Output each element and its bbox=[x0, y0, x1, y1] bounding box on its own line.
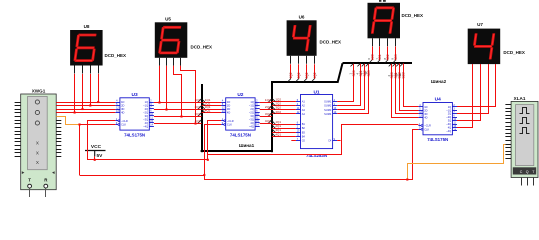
svg-text:4D: 4D bbox=[227, 111, 230, 115]
svg-text:2Q2: 2Q2 bbox=[265, 105, 271, 109]
wire U5 pin 1 tap to U3 1Q line bbox=[159, 66, 161, 102]
wire U1 output SUM3 up to bus Шина2 bbox=[337, 63, 364, 109]
wire U2 output 4Q to bus Шина1 right segment bbox=[260, 123, 272, 125]
svg-text:1Q1: 1Q1 bbox=[195, 98, 201, 102]
svg-text:A4: A4 bbox=[302, 112, 306, 116]
7-segment display U6 (hex display) showing 4 bbox=[287, 14, 317, 64]
svg-text:DCD_HEX: DCD_HEX bbox=[503, 50, 525, 55]
svg-text:~1Q: ~1Q bbox=[249, 104, 254, 108]
wire clock riser to U2 CLK bbox=[205, 125, 222, 176]
wire clock to U3 CLK bbox=[80, 124, 116, 126]
register IC U3 74LS175N bbox=[115, 92, 154, 137]
svg-text:C4: C4 bbox=[328, 139, 332, 143]
svg-text:~3Q: ~3Q bbox=[446, 122, 451, 126]
svg-text:2Q2: 2Q2 bbox=[297, 72, 301, 78]
wire clock bottom run right segment bbox=[205, 130, 419, 180]
wire clock bottom run left segment bbox=[80, 175, 205, 177]
svg-text:4Q2: 4Q2 bbox=[275, 110, 281, 114]
svg-text:2Q1: 2Q1 bbox=[195, 105, 201, 109]
svg-text:3Q: 3Q bbox=[250, 114, 253, 118]
svg-text:3Q: 3Q bbox=[448, 119, 451, 123]
svg-text:3Q2: 3Q2 bbox=[265, 112, 271, 116]
wire U2 output 3Q to bus Шина1 right segment bbox=[260, 116, 272, 118]
wire U5 pin 4 tap to U3 4Q line bbox=[181, 66, 196, 123]
wire U8 pin 3 tap to data line 2 bbox=[90, 74, 92, 106]
wire U5 pin 2 tap to U3 2Q line bbox=[166, 66, 168, 109]
svg-text:B1: B1 bbox=[302, 122, 306, 126]
svg-text:B4: B4 bbox=[302, 134, 306, 138]
svg-text:~CLR: ~CLR bbox=[424, 124, 431, 128]
svg-text:U2: U2 bbox=[237, 92, 243, 98]
wire VCC net middle run to U4 ~CLR bbox=[208, 125, 419, 155]
svg-text:~2Q: ~2Q bbox=[446, 115, 451, 119]
bus Шина1 right vertical segment bbox=[271, 82, 273, 152]
wire bus to U1 input A1 bbox=[272, 101, 296, 103]
svg-text:4Q: 4Q bbox=[145, 121, 148, 125]
svg-text:2D: 2D bbox=[227, 104, 230, 108]
svg-text:5V: 5V bbox=[97, 153, 104, 159]
svg-text:1D: 1D bbox=[227, 100, 230, 104]
wire U3 output 2Q to bus Шина1 bbox=[154, 109, 202, 111]
svg-text:1Q2: 1Q2 bbox=[289, 72, 293, 78]
svg-text:4Q2: 4Q2 bbox=[265, 119, 271, 123]
svg-text:Q: Q bbox=[526, 170, 529, 174]
wire U3 output 3Q to bus Шина1 bbox=[154, 116, 202, 118]
register IC U4 74LS175N bbox=[418, 97, 457, 142]
power source VCC 5V bbox=[85, 144, 106, 159]
wire U3 output 4Q to bus Шина1 bbox=[154, 123, 202, 125]
svg-text:~2Q: ~2Q bbox=[249, 111, 254, 115]
svg-text:X: X bbox=[36, 160, 39, 165]
wire bus Шина1 to U2 input 2D bbox=[202, 105, 222, 107]
wire display U9 pins tap to bus Шина2 top segment bbox=[372, 47, 374, 61]
wire stub at U1 C4 bbox=[337, 140, 340, 142]
bus entry diagonal taps on Шина2 top bbox=[369, 60, 372, 63]
wire bus to U1 input B3 bbox=[272, 132, 296, 134]
wire XWG1 output 3 to U3 input 3D bbox=[56, 109, 115, 111]
register IC U2 74LS175N bbox=[221, 92, 260, 137]
wire clock riser down from U3 CLK junction bbox=[79, 125, 81, 176]
wire clock branch to XLA1 (orange) bbox=[408, 145, 506, 180]
bus entry diagonal taps on Шина1 left bbox=[198, 99, 201, 102]
svg-text:3Q1: 3Q1 bbox=[195, 112, 201, 116]
svg-text:A2: A2 bbox=[302, 104, 306, 108]
wire stub at U1 C0 bbox=[291, 140, 296, 142]
svg-text:2D: 2D bbox=[121, 104, 124, 108]
svg-text:~4Q: ~4Q bbox=[249, 124, 254, 128]
svg-text:4Q2: 4Q2 bbox=[313, 72, 317, 78]
svg-text:~2Q: ~2Q bbox=[143, 111, 148, 115]
svg-text:4Q1: 4Q1 bbox=[275, 132, 281, 136]
wire U8 pin 1 tap to data line 4 bbox=[74, 74, 76, 113]
wire bus Шина2 down to U4 input 2D bbox=[400, 63, 419, 110]
svg-text:1Q: 1Q bbox=[448, 105, 451, 109]
svg-text:DCD_HEX: DCD_HEX bbox=[402, 13, 424, 18]
wire bus to U1 input A2 bbox=[272, 105, 296, 107]
svg-text:3Q: 3Q bbox=[145, 114, 148, 118]
svg-text:X: X bbox=[36, 151, 39, 156]
svg-text:B3: B3 bbox=[302, 130, 306, 134]
7-segment display U9 (hex display) showing A bbox=[368, 3, 401, 47]
svg-text:DCD_HEX: DCD_HEX bbox=[105, 53, 127, 58]
svg-text:Шина1: Шина1 bbox=[239, 143, 255, 148]
svg-text:~3Q: ~3Q bbox=[249, 117, 254, 121]
wire bus to U1 input A3 bbox=[272, 109, 296, 111]
svg-text:3D: 3D bbox=[424, 112, 427, 116]
svg-text:4Q: 4Q bbox=[448, 126, 451, 130]
bus Шина1 left vertical segment bbox=[201, 84, 203, 152]
wire bus Шина1 to U2 input 1D bbox=[202, 102, 222, 104]
svg-text:1D: 1D bbox=[121, 100, 124, 104]
svg-text:1Q2: 1Q2 bbox=[265, 98, 271, 102]
svg-text:CLK: CLK bbox=[424, 127, 429, 131]
svg-text:1Q: 1Q bbox=[145, 100, 148, 104]
bus entry diagonal taps on Шина1 right vertical bbox=[269, 99, 272, 102]
adder IC U1 74LS283N bbox=[296, 89, 337, 158]
wire VCC net riser to U2 ~CLR bbox=[208, 121, 222, 160]
wire bus to U1 input B4 bbox=[272, 136, 296, 138]
svg-text:4Q: 4Q bbox=[250, 121, 253, 125]
svg-text:~3Q: ~3Q bbox=[143, 117, 148, 121]
svg-text:~1Q: ~1Q bbox=[446, 108, 451, 112]
svg-text:2Q: 2Q bbox=[145, 107, 148, 111]
wire display U6 pins tap to bus Шина2 middle segment bbox=[290, 64, 292, 78]
svg-text:~1Q: ~1Q bbox=[143, 104, 148, 108]
bus Шина2 diagonal segment bbox=[338, 63, 343, 83]
svg-text:U8: U8 bbox=[84, 24, 90, 29]
svg-text:SUM3: SUM3 bbox=[324, 108, 332, 112]
wire U1 output SUM1 up to bus Шина2 bbox=[337, 63, 353, 101]
svg-text:U3: U3 bbox=[132, 92, 138, 98]
7-segment display U7 (hex display) showing 4 bbox=[468, 22, 501, 72]
svg-text:1Q: 1Q bbox=[250, 100, 253, 104]
svg-text:U4: U4 bbox=[435, 97, 441, 103]
svg-text:XWG1: XWG1 bbox=[32, 89, 46, 94]
wire XWG1 output 2 to U3 input 2D bbox=[56, 105, 115, 107]
svg-text:XLA1: XLA1 bbox=[514, 96, 526, 101]
svg-text:T: T bbox=[28, 177, 31, 182]
svg-text:C0: C0 bbox=[302, 139, 306, 143]
svg-text:SUM1: SUM1 bbox=[324, 100, 332, 104]
wire bus to U1 input A4 bbox=[272, 113, 296, 115]
svg-text:4D: 4D bbox=[121, 111, 124, 115]
svg-text:3D: 3D bbox=[121, 107, 124, 111]
svg-text:~CLR: ~CLR bbox=[227, 119, 234, 123]
bus Шина2 middle horizontal segment bbox=[271, 81, 338, 83]
svg-text:74LS283N: 74LS283N bbox=[306, 153, 327, 158]
svg-text:SUM2: SUM2 bbox=[324, 104, 332, 108]
svg-text:X: X bbox=[36, 141, 39, 146]
svg-text:CLK: CLK bbox=[227, 123, 232, 127]
svg-text:C: C bbox=[520, 170, 523, 174]
wire XWG1 output 1 to U3 input 1D bbox=[56, 102, 115, 104]
wire U2 output 2Q to bus Шина1 right segment bbox=[260, 109, 272, 111]
svg-text:4Q1: 4Q1 bbox=[205, 109, 211, 113]
bus Шина2 top horizontal segment bbox=[343, 62, 413, 64]
svg-text:4Q1: 4Q1 bbox=[195, 119, 201, 123]
svg-text:CLK: CLK bbox=[121, 123, 126, 127]
wire clock from XWG1 (orange segment) bbox=[56, 117, 79, 125]
wire U4 output 4Q up to display U7 pin bbox=[457, 64, 473, 127]
svg-text:U5: U5 bbox=[165, 16, 171, 21]
svg-text:74LS175N: 74LS175N bbox=[230, 132, 251, 137]
svg-text:DCD_HEX: DCD_HEX bbox=[320, 40, 342, 45]
svg-text:~CLR: ~CLR bbox=[121, 119, 128, 123]
wire bus Шина2 down to U4 input 4D bbox=[392, 63, 419, 117]
logic analyzer XLA1 bbox=[505, 96, 538, 186]
svg-text:1D: 1D bbox=[424, 105, 427, 109]
svg-text:Шина2: Шина2 bbox=[431, 79, 447, 84]
wire U5 pin 3 tap to U3 3Q line bbox=[174, 66, 182, 116]
svg-text:2Q: 2Q bbox=[250, 107, 253, 111]
svg-text:U7: U7 bbox=[477, 22, 483, 27]
svg-text:A3: A3 bbox=[302, 108, 306, 112]
7-segment display U5 (hex display) showing 6 bbox=[155, 16, 188, 65]
wire U4 output 2Q up to display U7 pin bbox=[457, 64, 489, 113]
bus entry diagonal taps on Шина2 middle bbox=[288, 79, 291, 82]
wire VCC net to U3 ~CLR bbox=[88, 121, 208, 160]
wire bus Шина1 to U2 input 3D bbox=[202, 109, 222, 111]
wire bus Шина1 to U2 input 4D bbox=[202, 112, 222, 114]
svg-text:3D: 3D bbox=[227, 107, 230, 111]
wire U1 output SUM2 up to bus Шина2 bbox=[337, 63, 360, 105]
word generator XWG1 bbox=[15, 89, 62, 197]
svg-text:3Q2: 3Q2 bbox=[305, 72, 309, 78]
svg-text:~4Q: ~4Q bbox=[446, 129, 451, 133]
clipped reference label above display U9 bbox=[379, 0, 381, 2]
svg-text:VCC: VCC bbox=[91, 144, 102, 150]
svg-text:2Q: 2Q bbox=[448, 112, 451, 116]
wire U4 output 3Q up to display U7 pin bbox=[457, 64, 481, 120]
wire XWG1 output 4 to U3 input 4D bbox=[56, 112, 115, 114]
svg-text:U6: U6 bbox=[299, 14, 305, 19]
wire U3 output 1Q to bus Шина1 bbox=[154, 102, 202, 104]
wire bus to U1 input B1 bbox=[272, 124, 296, 126]
7-segment display U8 (hex display) showing 6 bbox=[70, 24, 103, 74]
wire U2 output 1Q to bus Шина1 right segment bbox=[260, 102, 272, 104]
svg-text:~4Q: ~4Q bbox=[143, 124, 148, 128]
wire bus Шина2 down to U4 input 1D bbox=[404, 63, 419, 106]
svg-text:74LS175N: 74LS175N bbox=[124, 132, 145, 137]
svg-text:4D: 4D bbox=[424, 115, 427, 119]
wire U1 output SUM4 up to bus Шина2 bbox=[337, 63, 368, 113]
wire U8 pin 4 tap to data line 1 bbox=[98, 74, 100, 102]
bus Шина1 bottom segment bbox=[201, 150, 273, 152]
wire U4 output 1Q up to display U7 pin bbox=[457, 64, 496, 106]
wire VCC source stub bbox=[94, 156, 96, 159]
svg-text:2D: 2D bbox=[424, 108, 427, 112]
wire U8 pin 2 tap to data line 3 bbox=[82, 74, 84, 109]
wire bus to U1 input B2 bbox=[272, 128, 296, 130]
svg-text:74LS175N: 74LS175N bbox=[427, 137, 448, 142]
svg-text:DCD_HEX: DCD_HEX bbox=[191, 45, 213, 50]
svg-text:SUM4: SUM4 bbox=[324, 112, 332, 116]
svg-text:A1: A1 bbox=[302, 100, 306, 104]
svg-text:B2: B2 bbox=[302, 126, 306, 130]
wire bus Шина2 down to U4 input 3D bbox=[396, 63, 419, 113]
